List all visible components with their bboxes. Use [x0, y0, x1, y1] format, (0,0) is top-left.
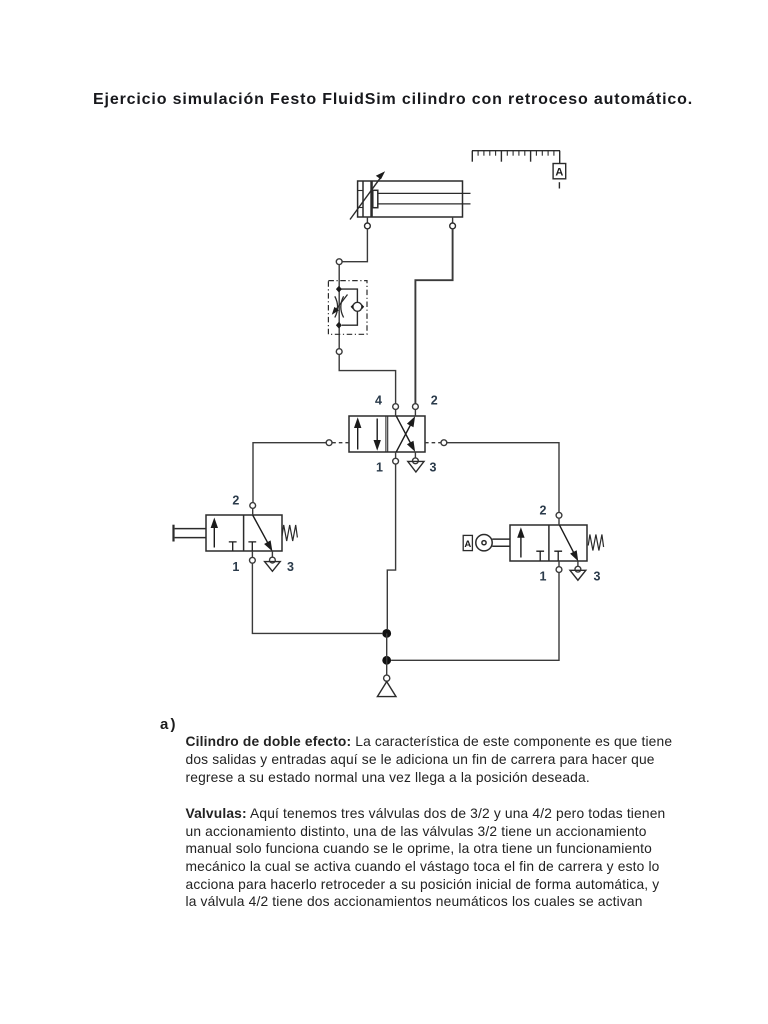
push valve port stubs: [252, 508, 272, 557]
roller valve blocked T right: [554, 551, 562, 560]
svg-text:4: 4: [375, 394, 382, 408]
cylinder adjust arrow: [350, 171, 385, 219]
valve port 3: [413, 458, 419, 464]
wire: push valve port 1 to junction: [252, 563, 382, 633]
pilot line right (dashed): [425, 442, 441, 444]
wire: pilot left to push valve port 2: [253, 443, 326, 503]
valve 1S2 roller 3/2 body: [510, 525, 587, 561]
node: flow valve top port: [336, 259, 342, 265]
push valve port 3: [270, 557, 276, 563]
exhaust 3 of 4/2: [408, 461, 424, 472]
svg-text:1: 1: [376, 460, 383, 474]
valve port 1: [393, 458, 399, 464]
roller valve port stubs: [559, 518, 578, 567]
flow control valve 1V (one-way, dash-dot frame): [328, 281, 367, 335]
roller valve port 2: [556, 512, 562, 518]
roller actuator: [476, 535, 510, 551]
valve 1V1 4/2 body: [349, 416, 425, 452]
wire: cylinder right port to valve port 2: [415, 229, 452, 404]
svg-text:3: 3: [430, 460, 437, 474]
roller valve diagonal 2-3: [560, 525, 579, 561]
compressed air supply triangle: [377, 682, 396, 697]
port stubs 4/2: [396, 410, 416, 459]
wire: roller valve port 1 to junction: [391, 573, 559, 661]
svg-text:2: 2: [540, 503, 547, 517]
junction node upper: [382, 629, 391, 638]
push valve blocked T right: [248, 542, 256, 551]
cylinder port right: [452, 217, 454, 223]
push valve blocked T left: [229, 542, 237, 551]
roller label box A: [463, 535, 472, 550]
svg-text:3: 3: [287, 560, 294, 574]
cylinder 1A (double-acting, adjustable): [358, 181, 471, 217]
push valve return spring: [282, 525, 297, 541]
push valve port 1: [250, 557, 256, 563]
svg-text:1: 1: [540, 570, 547, 584]
roller valve port 1: [556, 567, 562, 573]
node: pilot right port: [441, 440, 447, 446]
wire: pilot right to roller valve port 2: [447, 443, 559, 513]
node: flow valve bottom port: [336, 349, 342, 355]
wire: junction vertical: [386, 633, 388, 675]
push button actuator: [174, 525, 207, 542]
wire: 4/2 port 1 down to junction: [387, 464, 395, 629]
svg-text:2: 2: [431, 394, 438, 408]
junction node lower: [382, 656, 391, 665]
node: pilot left port: [326, 440, 332, 446]
roller valve blocked T left: [536, 551, 544, 560]
exhaust 3 of roller valve: [570, 570, 586, 580]
wire: cylinder left port to flow valve: [342, 229, 367, 262]
svg-text:A: A: [464, 539, 471, 550]
distance ruler: [472, 151, 560, 164]
cylinder port left: [366, 217, 368, 223]
valve 1S push-button 3/2 body: [206, 515, 282, 551]
flow valve throttle symbol: [332, 295, 348, 318]
4/2 right position crossed arrows: [396, 416, 415, 452]
svg-text:2: 2: [232, 494, 239, 508]
flow valve junction diamonds: [336, 286, 342, 293]
push valve port 2: [250, 503, 256, 509]
roller valve port 3: [575, 566, 581, 572]
valve port 2: [413, 404, 419, 410]
compressed air supply port: [384, 675, 390, 681]
wire: flow valve axis: [338, 265, 340, 349]
flow valve check-valve branch: [341, 289, 364, 325]
push valve diagonal 2-3: [253, 515, 273, 551]
svg-text:A: A: [555, 167, 563, 179]
roller valve arrow 1-2: [517, 527, 524, 557]
roller valve return spring: [588, 535, 603, 551]
4/2 left position arrows: [354, 417, 381, 450]
svg-text:1: 1: [232, 560, 239, 574]
valve port 4: [393, 404, 399, 410]
pilot line left (dashed): [332, 442, 349, 444]
limit switch label box A: [553, 164, 566, 189]
exhaust 3 of push valve: [265, 562, 281, 572]
svg-text:3: 3: [594, 570, 601, 584]
wire: flow valve to valve port 4: [339, 355, 395, 404]
push valve arrow 1-2: [211, 518, 218, 548]
